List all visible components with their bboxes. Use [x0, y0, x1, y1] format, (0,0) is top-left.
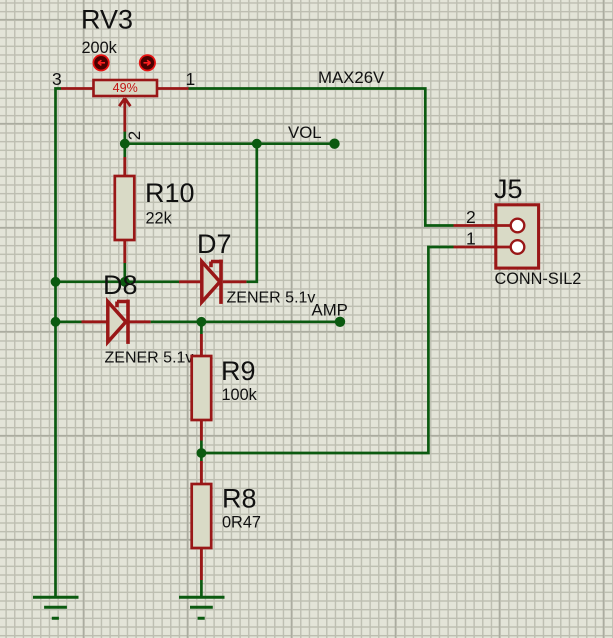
ground symbol left [33, 597, 79, 618]
svg-text:0R47: 0R47 [222, 514, 261, 532]
svg-text:ZENER 5.1v: ZENER 5.1v [227, 289, 316, 306]
wire: R10 bottom stub [123, 263, 126, 282]
svg-text:2: 2 [125, 131, 144, 140]
svg-text:MAX26V: MAX26V [318, 68, 385, 87]
svg-text:J5: J5 [494, 174, 523, 204]
svg-text:100k: 100k [222, 386, 258, 404]
svg-text:R8: R8 [222, 484, 257, 514]
svg-text:R10: R10 [145, 178, 195, 208]
potentiometer RV3 [61, 80, 189, 132]
ground symbol right [179, 597, 225, 618]
junction node at wiper/VOL [120, 139, 130, 149]
svg-text:1: 1 [186, 69, 196, 89]
wire: left rail to D8 anode [56, 320, 82, 323]
svg-text:RV3: RV3 [81, 5, 133, 35]
svg-text:1: 1 [466, 228, 476, 248]
junction node R9 top row2 [197, 317, 207, 327]
junction node left rail row2 [51, 317, 61, 327]
wire: VOL net from wiper junction [125, 142, 335, 145]
svg-text:22k: 22k [146, 210, 173, 228]
wire: MAX26V net from pot pin1 to J5 pin2 [189, 89, 454, 226]
wire: node row to D7 anode [56, 280, 180, 283]
svg-text:VOL: VOL [288, 123, 322, 142]
wire: R8 bottom to ground [200, 580, 203, 597]
wire: R9 top stub [200, 322, 203, 334]
svg-text:200k: 200k [82, 39, 118, 57]
svg-text:3: 3 [52, 69, 62, 89]
wire: VOL branch down to D7 cathode [246, 144, 256, 282]
junction node left rail row1 [51, 277, 61, 287]
svg-text:49%: 49% [113, 81, 138, 95]
wire: AMP net from D8 cathode [151, 320, 340, 323]
wire: pot pin3 corner down left rail to ground [56, 89, 62, 598]
resistor R10 [115, 157, 135, 263]
terminal dot VOL [329, 139, 339, 149]
wire: R8 top stub [200, 453, 203, 461]
wire: R9 bottom to junction, across to J5 pin1 riser [201, 247, 453, 453]
svg-text:2: 2 [466, 207, 476, 227]
svg-text:ZENER 5.1v: ZENER 5.1v [105, 349, 194, 366]
svg-text:AMP: AMP [312, 300, 348, 319]
RV3 adjust button left [93, 55, 108, 70]
terminal dot AMP [335, 317, 345, 327]
connector J5 [454, 205, 539, 268]
svg-text:D7: D7 [197, 229, 232, 259]
svg-text:CONN-SIL2: CONN-SIL2 [495, 270, 582, 288]
svg-text:D8: D8 [103, 270, 138, 300]
junction node VOL/D7 branch [252, 139, 262, 149]
zener diode D7 [179, 260, 246, 304]
junction node R9/R8 [197, 448, 207, 458]
junction node R10 bottom row1 [120, 277, 130, 287]
RV3 adjust button right [140, 55, 155, 70]
resistor R9 [192, 334, 212, 441]
zener diode D8 [82, 300, 151, 344]
wire: R10 top stub [123, 131, 126, 157]
resistor R8 [192, 461, 212, 580]
svg-text:R9: R9 [221, 356, 256, 386]
